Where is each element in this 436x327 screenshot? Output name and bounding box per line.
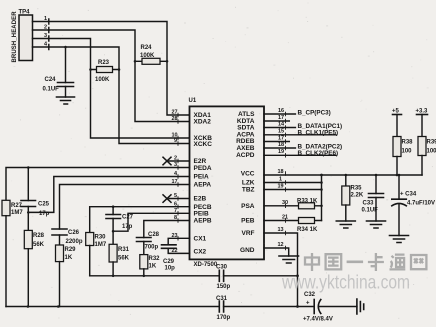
svg-text:17: 17 <box>278 136 284 142</box>
capacitor C24 <box>43 46 74 97</box>
svg-text:18: 18 <box>278 142 284 148</box>
svg-text:TP4: TP4 <box>19 10 31 16</box>
svg-text:0.1UF: 0.1UF <box>362 208 379 214</box>
wire B_CLK1(PE5) <box>264 129 338 137</box>
svg-text:R32: R32 <box>149 256 161 262</box>
capacitor C25 <box>21 166 50 230</box>
resistor R24 <box>134 45 169 64</box>
rail B with C31 <box>6 305 219 308</box>
svg-text:0.1UF: 0.1UF <box>43 87 60 93</box>
connector TP4 BRUSH_HEADER body <box>19 15 33 61</box>
svg-text:C28: C28 <box>148 232 160 238</box>
rail A with C30 <box>90 275 220 278</box>
wire TBZ pin19 <box>264 184 322 190</box>
svg-text:56K: 56K <box>33 242 45 248</box>
char guo <box>326 254 342 269</box>
wire header pin3 to IC pin10 <box>33 39 190 139</box>
stub pin 17 <box>264 115 289 121</box>
svg-text:28: 28 <box>172 116 178 122</box>
ground under R35 <box>336 221 355 228</box>
resistor R39 with +3.3 <box>416 109 436 176</box>
ground under C34 <box>390 236 409 243</box>
svg-text:100: 100 <box>402 149 413 155</box>
svg-text:E2B: E2B <box>194 196 207 203</box>
svg-text:GND: GND <box>240 247 255 254</box>
capacitor C32 electrolytic <box>303 292 357 322</box>
svg-text:R33 1K: R33 1K <box>297 198 318 204</box>
svg-text:PEB: PEB <box>241 218 255 225</box>
capacitor C26 <box>52 229 83 245</box>
capacitor C33 <box>362 175 384 221</box>
svg-text:C25: C25 <box>38 202 50 208</box>
svg-text:XDA2: XDA2 <box>194 119 212 126</box>
svg-text:170p: 170p <box>217 315 231 321</box>
svg-text:XCKC: XCKC <box>194 141 213 148</box>
svg-text:XD-7500: XD-7500 <box>194 262 218 268</box>
svg-text:12: 12 <box>278 242 284 248</box>
op-amp U1 IC body XD-7500 <box>189 98 265 268</box>
svg-text:www.yktchina.com: www.yktchina.com <box>281 272 410 294</box>
svg-text:100K: 100K <box>140 53 155 59</box>
svg-text:C24: C24 <box>45 77 57 83</box>
wire IC GND pin12 to ground <box>264 242 289 256</box>
svg-text:B_CP(PC3): B_CP(PC3) <box>298 110 331 117</box>
resistor R27 <box>2 200 23 306</box>
svg-text:19: 19 <box>278 184 284 190</box>
svg-text:14: 14 <box>278 122 285 128</box>
svg-text:AXEB: AXEB <box>236 145 254 152</box>
svg-text:B_CLK1(PE5): B_CLK1(PE5) <box>298 129 339 136</box>
wire header pin1 to IC pin27 <box>33 22 190 116</box>
watermark line 1 (drawn hanzi strokes) <box>305 253 426 271</box>
svg-text:LZK: LZK <box>242 180 255 187</box>
IC left pin names <box>194 112 213 256</box>
svg-text:VCC: VCC <box>241 171 255 178</box>
resistor R38 with +5 <box>392 109 413 177</box>
svg-text:700p: 700p <box>145 245 159 251</box>
svg-text:2.2K: 2.2K <box>351 193 364 199</box>
svg-text:TBZ: TBZ <box>242 187 255 194</box>
svg-text:R31: R31 <box>118 247 130 253</box>
svg-text:PSA: PSA <box>241 203 255 210</box>
svg-text:CX2: CX2 <box>194 249 207 256</box>
resistor R30 <box>86 233 107 276</box>
svg-text:21: 21 <box>282 215 288 221</box>
svg-text:AEPA: AEPA <box>194 182 212 189</box>
resistor R31 <box>109 244 130 275</box>
wire IC pin4 PEIA to C25/R28 node <box>27 177 190 214</box>
svg-text:B_CLK2(PE6): B_CLK2(PE6) <box>298 150 339 157</box>
svg-text:+7.4V/8.4V: +7.4V/8.4V <box>303 316 333 322</box>
svg-text:ATLS: ATLS <box>238 111 255 118</box>
svg-text:RDEB: RDEB <box>236 138 255 145</box>
svg-text:+ C34: + C34 <box>400 192 417 198</box>
svg-text:4.7uF/10V: 4.7uF/10V <box>407 201 435 207</box>
resistor R33 <box>264 198 322 209</box>
svg-text:19: 19 <box>278 149 284 155</box>
svg-text:R29: R29 <box>65 247 77 253</box>
svg-text:100: 100 <box>427 149 436 155</box>
svg-text:R24: R24 <box>141 45 153 51</box>
svg-text:R39: R39 <box>427 140 436 146</box>
svg-text:9: 9 <box>174 138 177 144</box>
VCC rail from pin18 <box>264 169 422 175</box>
svg-text:2200p: 2200p <box>66 239 83 245</box>
wire B_DATA1(PC1) <box>264 122 342 131</box>
resistor R28 <box>24 230 44 306</box>
wire IC VRF pin13 down to rails <box>264 227 299 308</box>
wire IC pin17 AEPA to C26 <box>60 185 190 230</box>
char yi <box>347 260 364 263</box>
wire IC pin23 CX1 to C29 <box>168 238 189 245</box>
char zhong <box>305 253 319 271</box>
resistor R34 <box>264 215 322 234</box>
svg-text:1M7: 1M7 <box>95 242 107 248</box>
ground under GND pin <box>279 256 299 263</box>
pin number ticks <box>178 112 286 250</box>
svg-text:30: 30 <box>282 200 288 206</box>
svg-text:C33: C33 <box>363 201 375 207</box>
svg-text:1: 1 <box>279 177 282 183</box>
svg-text:R35: R35 <box>351 186 363 192</box>
svg-text:+3.3: +3.3 <box>416 109 429 115</box>
svg-text:15: 15 <box>278 129 284 135</box>
svg-text:18: 18 <box>278 169 284 175</box>
IC left pin numbers <box>172 110 179 255</box>
no-connect pin 5 stub <box>163 195 190 203</box>
svg-text:1K: 1K <box>65 255 73 261</box>
svg-text:R23: R23 <box>98 60 110 66</box>
resistor R29 <box>56 245 77 307</box>
stub pin 17b <box>264 136 289 142</box>
char wang <box>411 255 426 269</box>
svg-text:PEDA: PEDA <box>194 165 212 172</box>
svg-text:C31: C31 <box>216 296 228 302</box>
resistor R32 <box>140 255 160 276</box>
no-connect pin 2 stub <box>163 157 190 165</box>
capacitor C27 <box>106 205 134 244</box>
wire IC pin8 AEPB to C28 <box>144 221 190 238</box>
bus vertical node <box>320 174 323 221</box>
svg-text:10p: 10p <box>165 266 176 272</box>
char tong <box>390 255 406 270</box>
wire header pin4 to IC pin9 <box>33 47 190 144</box>
svg-text:56K: 56K <box>118 256 130 262</box>
svg-text:R34 1K: R34 1K <box>297 227 318 233</box>
wire IC pin6 PECB to R30 <box>90 207 190 233</box>
svg-text:U1: U1 <box>189 98 197 104</box>
svg-text:BRUSH_HEADER: BRUSH_HEADER <box>12 11 18 63</box>
char ka <box>368 253 384 271</box>
wire B_DATA2(PC2) <box>264 142 342 151</box>
svg-text:1M7: 1M7 <box>11 210 23 216</box>
svg-text:27: 27 <box>172 110 178 116</box>
wire LZK pin1 <box>264 177 322 183</box>
IC right pin names <box>236 111 255 254</box>
svg-text:AEPB: AEPB <box>194 218 212 225</box>
junction dots on VCC rail <box>345 174 348 177</box>
svg-text:VRF: VRF <box>242 230 255 237</box>
svg-text:PEIA: PEIA <box>194 174 209 181</box>
svg-text:PEIB: PEIB <box>194 211 209 218</box>
svg-text:C26: C26 <box>68 230 80 236</box>
svg-text:16: 16 <box>278 108 284 114</box>
svg-text:C29: C29 <box>163 259 175 265</box>
ground under C24 <box>57 97 75 104</box>
svg-text:C30: C30 <box>216 265 228 271</box>
wire IC pin7 PEIB jog to C27/R31 node <box>113 213 189 231</box>
wire B_CLK2(PE6) <box>264 149 338 157</box>
resistor R23 <box>89 60 120 83</box>
capacitor C28 <box>137 232 160 255</box>
ground under C33 <box>367 221 386 228</box>
svg-text:ACPD: ACPD <box>236 152 255 159</box>
svg-text:R38: R38 <box>402 140 414 146</box>
svg-text:13: 13 <box>278 227 284 233</box>
tick marks at header pin numbers <box>48 19 50 50</box>
wire IC pin3 PEDA to R27 node <box>6 168 190 201</box>
svg-text:100K: 100K <box>95 77 110 83</box>
resistor R35 <box>342 175 364 221</box>
svg-text:17: 17 <box>278 115 284 121</box>
svg-text:R30: R30 <box>95 235 107 241</box>
capacitor C31 <box>216 296 314 321</box>
capacitor C29 <box>162 245 190 272</box>
wire header pin2 to IC pin28 <box>33 30 190 122</box>
svg-text:+5: +5 <box>392 109 400 115</box>
svg-text:+: + <box>306 301 310 307</box>
svg-text:CX1: CX1 <box>194 236 207 243</box>
wire B_CP(PC3) <box>264 108 331 117</box>
capacitor C30 <box>216 265 298 291</box>
capacitor C34 electrolytic <box>392 175 435 236</box>
ground right of C32 <box>357 299 364 314</box>
svg-text:1K: 1K <box>149 264 157 270</box>
svg-text:R28: R28 <box>33 233 45 239</box>
